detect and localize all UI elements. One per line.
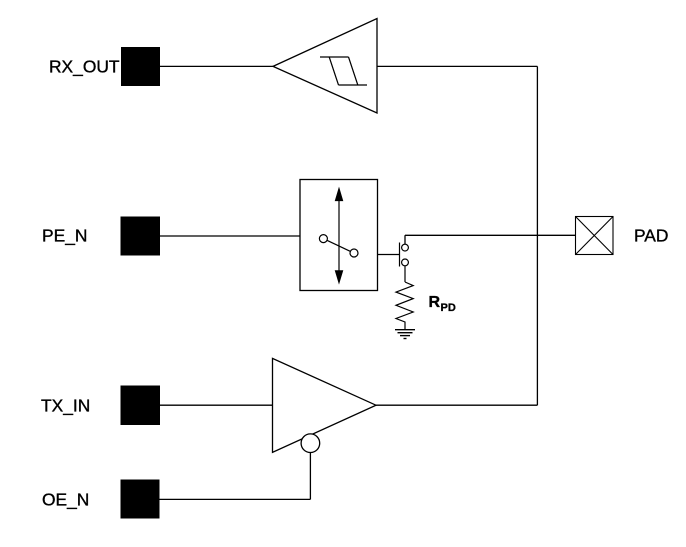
hysteresis symbol inside receiver [320,57,367,85]
double-headed arrow inside switch box [336,189,343,283]
switch wiper contacts inside box [319,235,358,257]
wire OE_N pad to enable bubble [160,453,311,500]
resistor R_PD zigzag [396,282,413,330]
svg-text:PE_N: PE_N [42,225,87,245]
pin pad PE_N [121,217,161,256]
pulldown switch blade [399,243,401,267]
label R_PD [429,294,456,314]
svg-text:OE_N: OE_N [42,490,89,510]
svg-text:R: R [429,294,441,311]
wire RX_OUT pad to buffer output [160,65,273,67]
wire switch bottom contact to resistor [404,266,406,282]
svg-text:PAD: PAD [634,225,668,245]
svg-text:TX_IN: TX_IN [41,395,90,415]
svg-text:RX_OUT: RX_OUT [49,57,120,77]
pin pad TX_IN [121,386,161,426]
wire receiver input from PAD net (horizontal) [377,65,537,67]
wire PE_N pad to switch box [160,235,300,237]
pin pad RX_OUT [121,47,160,86]
tri-state driver buffer (points right) [273,358,377,452]
schmitt-trigger receiver buffer (points left) [273,19,377,114]
wire TX_IN pad to driver input [160,404,273,406]
wire switch top contact to PAD net [405,235,576,244]
wire driver output to PAD net [376,404,537,406]
switch control box [300,180,378,291]
wire switch box to pulldown switch [378,254,400,256]
ground symbol [395,330,415,339]
svg-text:PD: PD [441,302,456,314]
PAD bonding pad symbol [576,217,614,255]
pulldown switch top contact [402,244,409,251]
pulldown switch bottom contact [402,259,409,266]
enable bubble on driver [301,434,320,453]
pin pad OE_N [121,480,160,519]
wire PAD net vertical bus [536,66,538,405]
